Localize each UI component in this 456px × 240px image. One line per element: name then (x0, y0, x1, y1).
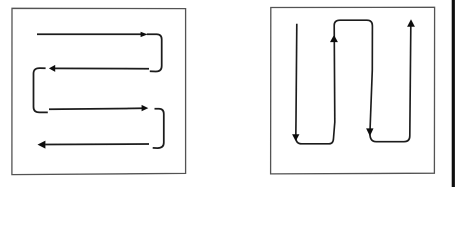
wire row4 shaft right-to-left (final) (45, 143, 149, 146)
wire connector row3-to-row4 (right side, down) (153, 109, 164, 148)
right edge black bar (452, 0, 455, 187)
wire connector row2-to-row3 (left side, down) (34, 68, 48, 112)
wire row1 shaft left-to-right (37, 33, 142, 35)
left box frame (12, 8, 186, 174)
wire row3 shaft left-to-right (49, 108, 143, 109)
arrowhead row3 (points right) (142, 105, 149, 111)
arrowhead row1 (points right) (141, 32, 148, 37)
arrowhead row2 (points left) (49, 65, 55, 72)
arrowhead column3 (points down) (366, 128, 373, 136)
arrowhead row4 (points left) (38, 141, 46, 149)
arrowhead column2 (points up) (330, 35, 338, 42)
wire column serpentine path (296, 20, 411, 144)
wire connector row1-to-row2 (right side, down) (147, 34, 162, 71)
right box frame (271, 7, 435, 174)
wire row2 shaft right-to-left (54, 67, 149, 69)
arrowhead column4 (points up) (407, 19, 415, 26)
arrowhead column1 (points down) (292, 134, 299, 141)
